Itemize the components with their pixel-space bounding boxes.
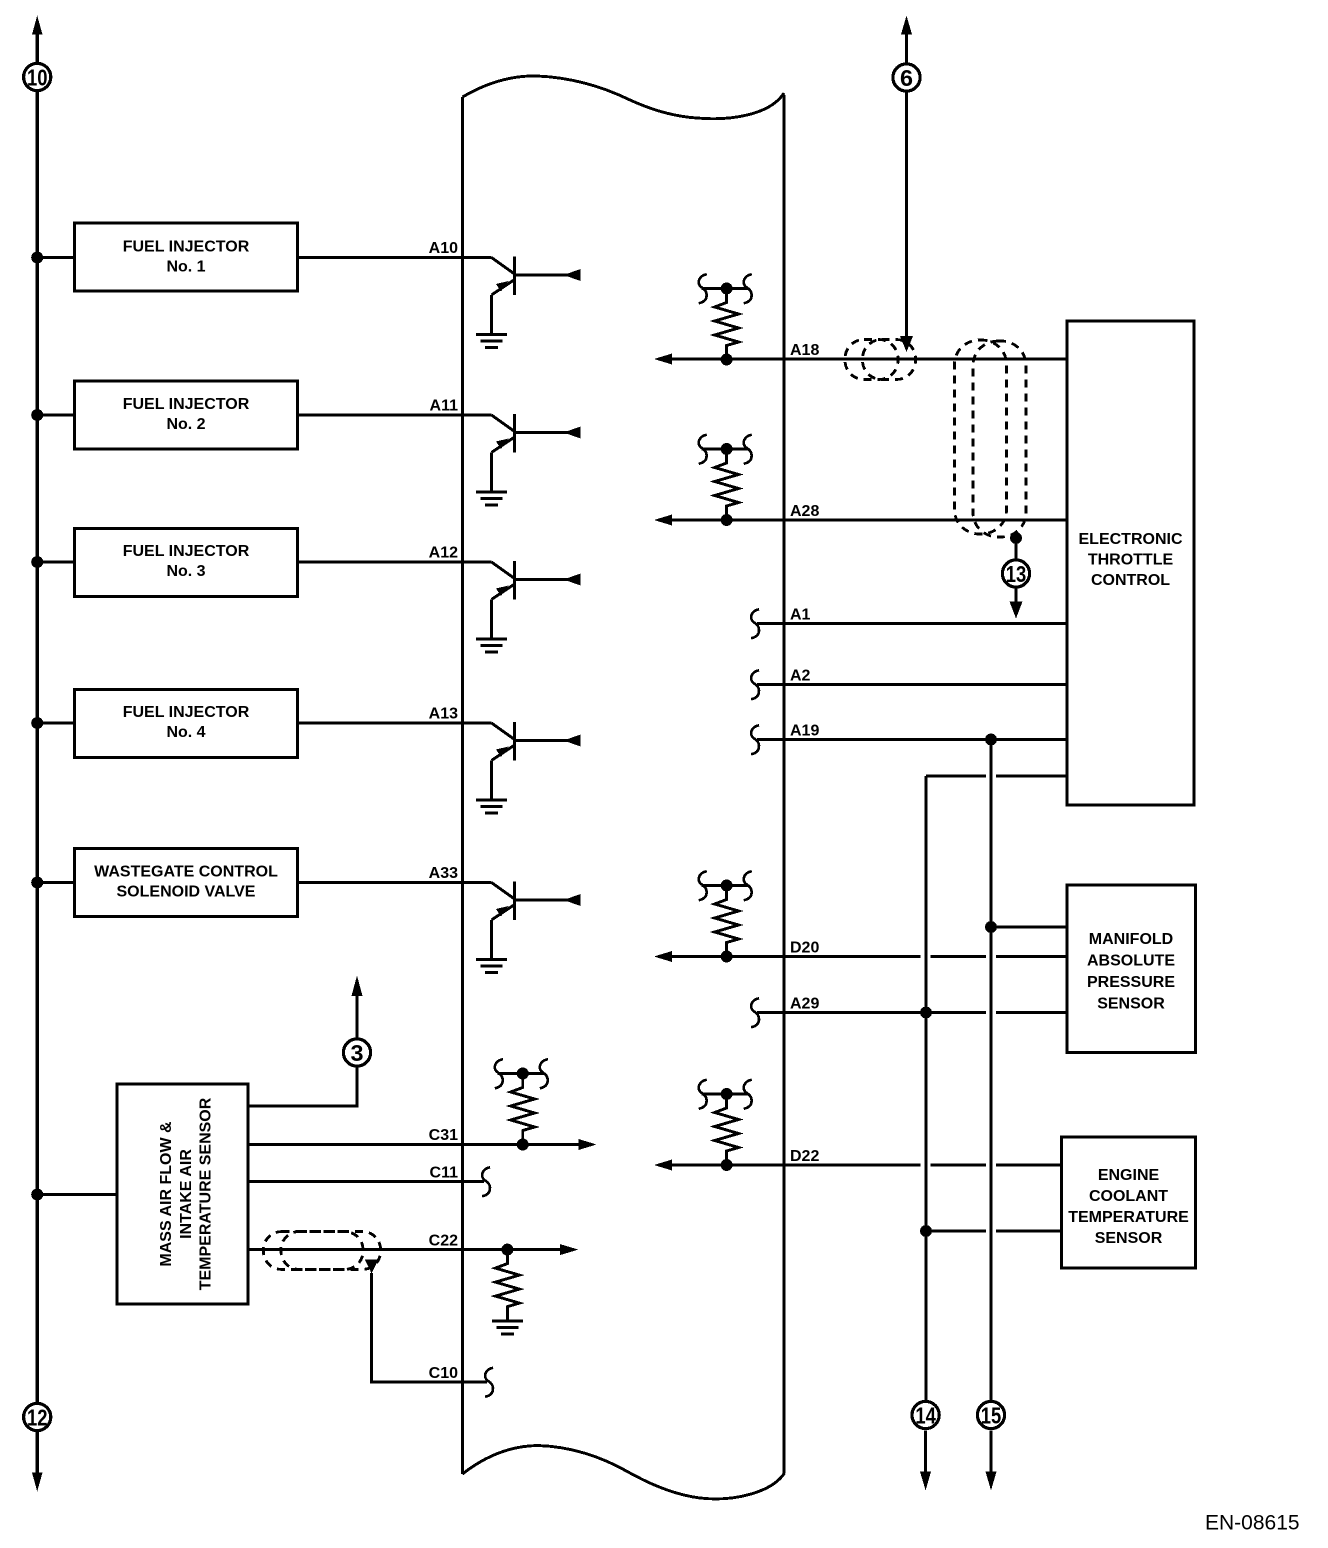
svg-text:PRESSURE: PRESSURE [1087, 974, 1175, 991]
ECU boundary top torn edge [463, 76, 785, 119]
fuel injector No.3 box [75, 529, 298, 597]
node 14 arrow down [920, 1431, 931, 1491]
node 15 label circle [977, 1401, 1004, 1428]
svg-text:No. 4: No. 4 [166, 724, 205, 741]
resistor R1 on A18 [699, 274, 752, 365]
svg-text:FUEL INJECTOR: FUEL INJECTOR [123, 704, 250, 721]
wire C10 break [485, 1368, 493, 1397]
svg-text:ENGINE: ENGINE [1098, 1167, 1160, 1184]
svg-text:A29: A29 [790, 996, 819, 1013]
junction rail-injector4 [31, 717, 43, 729]
transistor Q2 with ground [476, 414, 581, 505]
svg-text:WASTEGATE CONTROL: WASTEGATE CONTROL [94, 864, 278, 881]
electronic throttle control box [1067, 321, 1194, 805]
wire A1 with break [751, 609, 1067, 638]
node 3 label circle [343, 1039, 370, 1066]
svg-text:TEMPERATURE SENSOR: TEMPERATURE SENSOR [198, 1097, 215, 1290]
svg-text:No. 3: No. 3 [166, 563, 205, 580]
junction rail-MAF [31, 1189, 43, 1201]
junction rail-wastegate [31, 877, 43, 889]
svg-text:C22: C22 [429, 1233, 458, 1250]
wire A2 with break [751, 670, 1067, 699]
wire C11 with break [249, 1167, 491, 1196]
wire rail to injector2 [37, 414, 74, 417]
fuel injector No.1 box [75, 223, 298, 291]
engine coolant temperature sensor box [1062, 1137, 1196, 1268]
svg-text:CONTROL: CONTROL [1091, 572, 1170, 589]
wire D22 with end arrow [654, 1160, 1062, 1171]
wire D20 with end arrow [654, 951, 1067, 962]
fuel injector No.4 box [75, 690, 298, 758]
wire node6 down to A18 [900, 93, 913, 353]
twisted pair symbol on C22 [263, 1232, 380, 1270]
ECU boundary left edge [461, 97, 464, 1474]
wire A12 [298, 561, 492, 564]
manifold absolute pressure sensor box [1067, 885, 1196, 1053]
wire A33 [298, 881, 492, 884]
transistor Q1 with ground [476, 257, 581, 348]
wire left supply rail [36, 92, 39, 1403]
svg-text:A2: A2 [790, 668, 811, 685]
svg-text:SENSOR: SENSOR [1097, 996, 1165, 1013]
svg-text:FUEL INJECTOR: FUEL INJECTOR [123, 396, 250, 413]
junction rail-injector1 [31, 252, 43, 264]
wire rail to MAF [37, 1193, 117, 1196]
junction rail-injector3 [31, 556, 43, 568]
svg-text:D22: D22 [790, 1148, 819, 1165]
node 12 rail arrow down [32, 1431, 43, 1492]
wire rail to injector3 [37, 561, 74, 564]
ECU boundary right edge [782, 95, 785, 1473]
svg-text:C31: C31 [429, 1127, 458, 1144]
wire C22 shield drain to C10 [365, 1260, 487, 1383]
resistor R2 on A28 [699, 435, 752, 526]
ECU boundary bottom torn edge [463, 1446, 785, 1499]
junction A29-branch14 [920, 1007, 932, 1019]
node 15 arrow down [986, 1431, 997, 1491]
wire A29 with break [751, 998, 1067, 1027]
resistor R5 on C31 [495, 1059, 548, 1150]
svg-text:No. 2: No. 2 [166, 416, 205, 433]
svg-text:THROTTLE: THROTTLE [1088, 552, 1174, 569]
wire A18 with end arrow [654, 354, 1067, 365]
wire A13 [298, 722, 492, 725]
wire A19 branch down to node 15 [990, 740, 993, 1401]
node 13 arrow down [1010, 588, 1023, 619]
svg-text:A11: A11 [430, 398, 459, 415]
transistor Q3 with ground [476, 561, 581, 652]
junction shield drain [1010, 532, 1022, 544]
svg-text:C11: C11 [430, 1165, 459, 1182]
node 6 arrow up [901, 16, 912, 64]
transistor Q5 with ground [476, 882, 581, 973]
svg-text:A12: A12 [429, 545, 458, 562]
svg-text:EN-08615: EN-08615 [1205, 1512, 1300, 1535]
resistor R4 on D22 [699, 1080, 752, 1171]
svg-text:15: 15 [981, 1403, 1002, 1429]
wire A19 with break [751, 725, 1067, 754]
wire rail to wastegate [37, 881, 74, 884]
svg-text:3: 3 [351, 1040, 364, 1066]
wire shield drain to node 13 [1015, 538, 1018, 559]
svg-text:6: 6 [900, 65, 913, 91]
wire C31 with end arrow [249, 1139, 597, 1150]
fuel injector No.2 box [75, 381, 298, 449]
svg-text:12: 12 [27, 1405, 48, 1431]
resistor R6 to ground on C22 [492, 1244, 523, 1335]
node 3 arrow up [352, 976, 363, 1040]
wire ECT low side [926, 1230, 1062, 1233]
svg-text:MASS AIR FLOW &: MASS AIR FLOW & [158, 1121, 175, 1267]
svg-text:C10: C10 [429, 1365, 458, 1382]
svg-text:10: 10 [27, 65, 48, 91]
mass air flow & intake air temperature sensor box [117, 1084, 248, 1304]
svg-text:A33: A33 [429, 865, 458, 882]
wire MAF to node 3 [249, 1067, 357, 1107]
svg-text:13: 13 [1006, 561, 1027, 587]
junction A19 branch [985, 734, 997, 746]
junction MAP-A19 branch [985, 921, 997, 933]
wire ETC branch down to node 14 [925, 776, 928, 1401]
wire C22 with end arrow [249, 1244, 579, 1255]
wastegate control solenoid valve box [75, 849, 298, 917]
wire ETC lower output [926, 775, 1067, 778]
wire A28 with end arrow [654, 515, 1067, 526]
transistor Q4 with ground [476, 722, 581, 813]
node 10 rail arrow up [32, 16, 43, 63]
svg-text:D20: D20 [790, 940, 819, 957]
svg-text:FUEL INJECTOR: FUEL INJECTOR [123, 543, 250, 560]
node 14 label circle [912, 1401, 939, 1428]
wire MAP to A19 branch [991, 926, 1067, 929]
wire rail to injector1 [37, 256, 74, 259]
svg-text:A10: A10 [429, 240, 458, 257]
node 13 label circle [1002, 560, 1029, 587]
svg-text:ABSOLUTE: ABSOLUTE [1087, 953, 1175, 970]
svg-text:TEMPERATURE: TEMPERATURE [1068, 1209, 1189, 1226]
svg-text:A1: A1 [790, 607, 811, 624]
svg-text:ELECTRONIC: ELECTRONIC [1079, 531, 1183, 548]
node 6 label circle [893, 64, 920, 91]
junction rail-injector2 [31, 409, 43, 421]
svg-text:MANIFOLD: MANIFOLD [1089, 931, 1173, 948]
svg-text:A13: A13 [429, 706, 458, 723]
resistor R3 on D20 [699, 871, 752, 962]
svg-text:A28: A28 [790, 503, 819, 520]
svg-text:14: 14 [915, 1403, 936, 1429]
svg-text:A18: A18 [790, 342, 819, 359]
shield symbol around A18/A28 [955, 340, 1027, 537]
svg-text:A19: A19 [790, 723, 819, 740]
svg-text:SOLENOID VALVE: SOLENOID VALVE [117, 884, 256, 901]
wire A10 [298, 256, 492, 259]
wire rail to injector4 [37, 722, 74, 725]
svg-text:INTAKE AIR: INTAKE AIR [178, 1149, 195, 1239]
svg-text:COOLANT: COOLANT [1089, 1188, 1168, 1205]
svg-text:No. 1: No. 1 [166, 259, 205, 276]
wire A11 [298, 414, 492, 417]
svg-text:FUEL INJECTOR: FUEL INJECTOR [123, 239, 250, 256]
node 10 label circle [24, 63, 51, 90]
twisted pair symbol on A18 [845, 340, 916, 380]
node 12 label circle [24, 1403, 51, 1430]
svg-text:SENSOR: SENSOR [1095, 1230, 1163, 1247]
junction ECT-branch14 [920, 1225, 932, 1237]
